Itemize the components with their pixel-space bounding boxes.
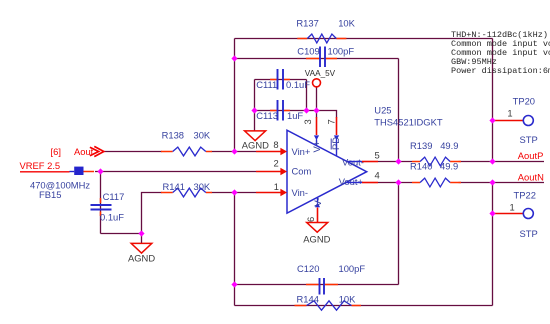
pin 8 Vin+	[256, 139, 287, 155]
capacitor C113	[256, 100, 303, 121]
svg-text:FB15: FB15	[39, 189, 61, 200]
wire right vertical AoutP node	[492, 39, 494, 162]
svg-text:THS4521IDGKT: THS4521IDGKT	[374, 116, 443, 127]
wire R139 to AoutP	[459, 161, 545, 163]
svg-text:Vin+: Vin+	[292, 146, 311, 157]
junction Vin- node / C120 tap	[231, 281, 237, 287]
resistor R141	[161, 181, 212, 197]
svg-text:V-: V-	[312, 198, 323, 207]
junction VREF / C117	[97, 168, 103, 174]
svg-text:[6]: [6]	[51, 146, 61, 157]
svg-text:R141: R141	[163, 181, 185, 192]
svg-text:5: 5	[375, 150, 380, 161]
svg-text:U25: U25	[374, 104, 391, 115]
svg-text:C111: C111	[256, 79, 277, 90]
ground AGND pin6	[303, 223, 330, 245]
wire top feedback horizontal	[235, 38, 493, 40]
resistor R138	[161, 130, 212, 156]
pin 7 PD	[325, 117, 341, 156]
svg-text:STP: STP	[520, 134, 538, 145]
op-amp U25	[287, 104, 443, 213]
svg-text:6: 6	[305, 217, 316, 222]
ground AGND decoupling	[242, 131, 269, 151]
testpoint TP20	[493, 96, 538, 146]
junction Vin+ node / C109 tap	[231, 55, 237, 61]
svg-text:C117: C117	[103, 191, 125, 202]
wire VAA row to pin7	[317, 111, 337, 118]
svg-text:4: 4	[375, 170, 380, 181]
wire R144 row	[235, 305, 493, 307]
capacitor C109	[297, 46, 354, 68]
resistor R140	[410, 161, 461, 187]
wire C111 loop right	[306, 80, 308, 111]
testpoint TP22	[493, 189, 538, 238]
node junction dots	[97, 55, 495, 287]
capacitor C111	[256, 69, 310, 90]
svg-text:2: 2	[274, 158, 279, 169]
junction Vin- node / pin1 / R141	[231, 189, 237, 195]
svg-text:1: 1	[274, 181, 279, 192]
wire AGND stem left	[254, 111, 256, 131]
svg-text:AGND: AGND	[128, 253, 155, 264]
wire R140 to AoutN	[459, 182, 545, 184]
svg-text:1: 1	[507, 107, 512, 118]
junction VAA_5V / pin3	[313, 107, 319, 113]
svg-text:C113: C113	[256, 110, 278, 121]
junction Vin+ node / pin8 / R138	[231, 148, 237, 154]
wire VREF to pin2	[95, 171, 256, 173]
ferrite bead FB15	[20, 167, 94, 200]
wire C120 to pin4 vertical	[398, 183, 400, 285]
wire C117 bottom to AGND node	[101, 233, 142, 235]
resistor R139	[410, 140, 461, 166]
svg-text:Vin-: Vin-	[292, 187, 309, 198]
off-page connector Aout	[51, 146, 104, 157]
wire R141 to pin1 node	[212, 192, 257, 194]
wire C109 row	[235, 58, 399, 60]
svg-text:Com: Com	[292, 166, 312, 177]
wire C109 to pin5 vertical	[398, 59, 400, 162]
svg-text:Vout+: Vout+	[339, 176, 364, 187]
svg-text:10K: 10K	[338, 17, 355, 28]
svg-text:C109: C109	[297, 46, 319, 57]
svg-text:10K: 10K	[339, 294, 356, 305]
svg-text:R144: R144	[297, 294, 319, 305]
svg-text:30K: 30K	[194, 181, 211, 192]
svg-text:R140: R140	[410, 161, 432, 172]
wire input Aout to R138	[104, 151, 162, 153]
svg-text:STP: STP	[520, 228, 538, 239]
svg-text:49.9: 49.9	[440, 140, 458, 151]
svg-text:C120: C120	[297, 263, 319, 274]
svg-text:AoutP: AoutP	[518, 150, 544, 161]
annotation text block	[451, 30, 550, 76]
junction C120 / pin4 Vout+	[395, 179, 401, 185]
wire AGND stem C117	[141, 234, 143, 244]
svg-text:AoutN: AoutN	[518, 172, 544, 183]
svg-text:7: 7	[325, 119, 336, 124]
wire left vertical Vin- node	[234, 193, 236, 306]
wire C120 row	[235, 284, 399, 286]
wire C117 stem	[100, 172, 102, 234]
junction AoutN / R144 feedback	[489, 179, 495, 185]
svg-text:AGND: AGND	[242, 139, 269, 150]
wire C113 row	[255, 110, 317, 112]
svg-text:TP22: TP22	[514, 189, 536, 200]
wire C111 row	[255, 79, 307, 81]
svg-text:49.9: 49.9	[440, 161, 458, 172]
svg-text:1: 1	[510, 201, 515, 212]
pin 1 Vin-	[256, 181, 287, 197]
junction AoutP / R137 feedback	[489, 158, 495, 164]
svg-text:8: 8	[273, 139, 278, 150]
pin 5 Vout-	[347, 150, 379, 162]
junction C117 / R141 / AGND	[138, 230, 144, 236]
resistor R137	[296, 17, 355, 43]
svg-text:VAA_5V: VAA_5V	[305, 69, 336, 78]
svg-text:3: 3	[302, 119, 313, 124]
capacitor C120	[297, 263, 365, 295]
wire pin4 to R140	[378, 182, 412, 184]
wire R141 left riser	[142, 193, 163, 234]
svg-text:100pF: 100pF	[339, 263, 366, 274]
ground AGND C117	[128, 243, 155, 263]
pin 3 V+	[302, 111, 322, 153]
wire VAA stem	[316, 87, 318, 111]
wire pin5 to R139	[378, 161, 412, 163]
wire C111 loop left	[254, 80, 256, 111]
svg-text:VREF 2.5: VREF 2.5	[20, 160, 61, 171]
junction TP20 tap	[489, 117, 495, 123]
capacitor C117	[91, 191, 125, 223]
svg-text:TP20: TP20	[513, 96, 535, 107]
pin 6 V-	[305, 198, 323, 223]
power VAA_5V	[305, 69, 336, 87]
pin 2 Com	[256, 158, 287, 176]
junction C111-C113 right	[303, 107, 309, 113]
svg-text:R139: R139	[410, 140, 432, 151]
resistor R144	[295, 294, 362, 311]
svg-text:R137: R137	[296, 17, 318, 28]
wire right vertical AoutN node	[492, 183, 494, 306]
junction TP22 tap	[489, 210, 495, 216]
wire R138 to pin8 node	[212, 151, 257, 153]
svg-text:V+: V+	[311, 140, 322, 152]
svg-text:0.1uF: 0.1uF	[286, 79, 310, 90]
pin 4 Vout+	[346, 170, 380, 183]
svg-text:Power dissipation:6mW: Power dissipation:6mW	[451, 66, 550, 76]
svg-text:R138: R138	[162, 130, 184, 141]
junction C109 / pin5 Vout-	[395, 158, 401, 164]
wire left vertical Vin+ node	[234, 39, 236, 152]
svg-text:0.1uF: 0.1uF	[100, 212, 124, 223]
svg-text:30K: 30K	[194, 130, 211, 141]
svg-text:100pF: 100pF	[328, 46, 355, 57]
svg-text:AGND: AGND	[303, 233, 330, 244]
junction C113 left / AGND	[251, 107, 257, 113]
